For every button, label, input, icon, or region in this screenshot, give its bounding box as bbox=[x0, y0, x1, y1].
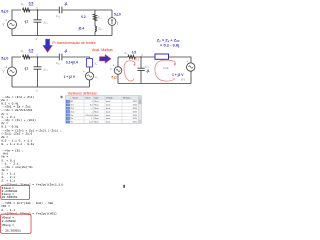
svg-text:Zx: Zx bbox=[71, 118, 73, 120]
svg-text:Name: Name bbox=[73, 98, 79, 100]
svg-text:2. + 1.i: 2. + 1.i bbox=[1, 178, 15, 182]
svg-text:= 0.2 - 0.6j: = 0.2 - 0.6j bbox=[160, 42, 179, 47]
svg-text:local: local bbox=[106, 111, 111, 113]
svg-text:- 26.565051: - 26.565051 bbox=[2, 229, 21, 232]
svg-text:0.2+j0.4: 0.2+j0.4 bbox=[66, 61, 78, 65]
svg-text:Im1: Im1 bbox=[134, 57, 140, 61]
svg-text:Anal. Malhas: Anal. Malhas bbox=[92, 48, 113, 52]
svg-text:Real: Real bbox=[94, 108, 99, 110]
svg-text:1. - 2.i: 1. - 2.i bbox=[1, 175, 15, 179]
svg-text:1+2i: 1+2i bbox=[89, 122, 93, 124]
svg-text:+: + bbox=[187, 59, 189, 63]
svg-text:Real: Real bbox=[94, 122, 99, 124]
svg-text:j0.4: j0.4 bbox=[78, 26, 85, 30]
svg-text:Visibilit...: Visibilit... bbox=[106, 97, 114, 100]
svg-text:Vm =: Vm = bbox=[1, 156, 8, 159]
svg-text:32 B: 32 B bbox=[133, 108, 138, 110]
svg-text:VO1 =: VO1 = bbox=[1, 205, 10, 208]
svg-text:0.5 - 1.i 0. + 1.i: 0.5 - 1.i 0. + 1.i bbox=[1, 139, 32, 143]
svg-text:+: + bbox=[83, 70, 85, 74]
svg-text:- 1. - 2.i: - 1. - 2.i bbox=[1, 161, 19, 165]
svg-text:(V): (V) bbox=[181, 78, 185, 82]
svg-text:Real: Real bbox=[94, 111, 99, 113]
svg-text:+: + bbox=[113, 63, 115, 67]
svg-text:Real: Real bbox=[94, 101, 99, 103]
svg-text:Im =: Im = bbox=[1, 169, 8, 172]
svg-text:32 B: 32 B bbox=[133, 122, 138, 124]
svg-text:0.2: 0.2 bbox=[81, 15, 86, 19]
svg-text:local: local bbox=[106, 122, 111, 124]
svg-text:-->Zx = Za*Zc1/Zb1: -->Zx = Za*Zc1/Zb1 bbox=[1, 108, 32, 112]
svg-text:VOang =: VOang = bbox=[2, 224, 14, 227]
svg-text:0.5: 0.5 bbox=[132, 51, 137, 55]
svg-text:16 B: 16 B bbox=[133, 105, 138, 107]
svg-text:Memory: Memory bbox=[123, 97, 131, 100]
svg-text:Variáveis definidas:: Variáveis definidas: bbox=[68, 91, 98, 95]
svg-text:local: local bbox=[106, 105, 111, 107]
svg-text:16 B: 16 B bbox=[133, 101, 138, 103]
svg-text:Real: Real bbox=[94, 115, 99, 117]
svg-text:local: local bbox=[106, 118, 111, 120]
svg-text:-j1: -j1 bbox=[146, 69, 150, 73]
svg-text:1 + j2 V: 1 + j2 V bbox=[172, 73, 184, 77]
svg-text:32 B: 32 B bbox=[133, 111, 138, 113]
svg-text:5∠0: 5∠0 bbox=[114, 12, 121, 16]
svg-text:local: local bbox=[106, 115, 111, 117]
svg-text:local: local bbox=[106, 101, 111, 103]
svg-text:0.2+0.4i: 0.2+0.4i bbox=[85, 115, 93, 117]
svg-text:Real: Real bbox=[94, 105, 99, 107]
svg-text:32 B: 32 B bbox=[133, 118, 138, 120]
svg-text:Value: Value bbox=[85, 98, 91, 100]
svg-text:Im2: Im2 bbox=[163, 66, 168, 70]
svg-text:P/ transformação de fontes: P/ transformação de fontes bbox=[52, 41, 95, 45]
svg-text:Real: Real bbox=[94, 118, 99, 120]
svg-text:2.236068: 2.236068 bbox=[2, 220, 16, 223]
svg-text:26.565051: 26.565051 bbox=[2, 196, 18, 199]
svg-text:0. + 1.i 0.2 - 0.6i: 0. + 1.i 0.2 - 0.6i bbox=[1, 142, 34, 146]
svg-text:32 B: 32 B bbox=[133, 115, 138, 117]
svg-text:1 + j2 V: 1 + j2 V bbox=[64, 75, 76, 79]
svg-text:local: local bbox=[106, 108, 111, 110]
svg-text:-->[VOmod, VOang] = frm2pol(VO: -->[VOmod, VOang] = frm2pol(VO1) bbox=[1, 211, 57, 215]
svg-text:0.2 - 0.6i: 0.2 - 0.6i bbox=[1, 124, 19, 128]
svg-text:5∠0: 5∠0 bbox=[111, 76, 118, 80]
